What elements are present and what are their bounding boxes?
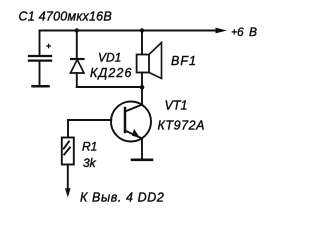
svg-text:КТ972А: КТ972А [158,119,206,133]
svg-text:R1: R1 [82,140,97,154]
node B: speaker to rail junction [140,28,144,32]
svg-text:КД226: КД226 [90,66,133,80]
svg-text:VT1: VT1 [165,99,188,113]
speaker BF1 [137,31,162,88]
node C: collector junction [140,85,145,90]
wire: diode bottom to collector node [77,86,142,88]
transistor VT1 [111,102,151,142]
output arrow (down) [65,188,71,197]
wire collector lead [141,87,143,105]
wire base [68,120,111,138]
svg-text:В: В [249,25,257,39]
ground (emitter) [132,159,152,162]
wire R1 to output [67,165,69,190]
label +6 В [232,30,236,34]
capacitor C1 [29,31,51,86]
node A: diode to rail junction [75,28,79,32]
+6V supply arrow [216,28,228,34]
svg-text:6: 6 [237,25,244,39]
wire top rail [40,30,218,32]
ground (C1 bottom bar) [33,85,49,88]
svg-text:С1 4700мкх16В: С1 4700мкх16В [19,10,112,24]
resistor R1 [62,138,74,165]
svg-text:3k: 3k [83,156,97,170]
svg-text:VD1: VD1 [98,51,121,65]
diode VD1 [71,31,85,88]
svg-text:К Выв. 4 DD2: К Выв. 4 DD2 [80,191,164,205]
wire emitter lead [141,139,143,160]
svg-text:BF1: BF1 [171,54,197,68]
